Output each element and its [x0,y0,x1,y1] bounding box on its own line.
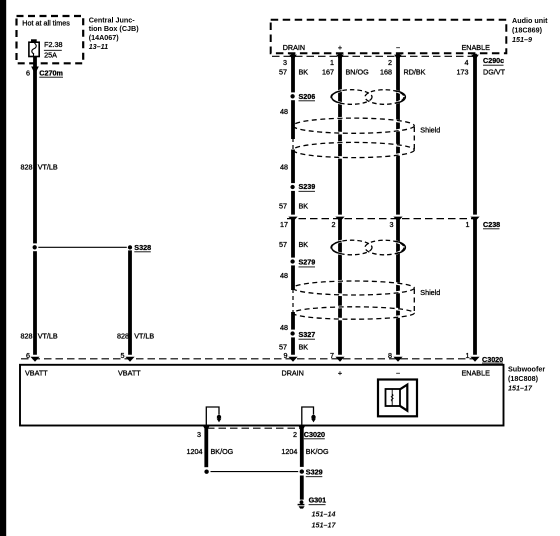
svg-text:7: 7 [330,351,334,360]
svg-text:−: − [396,368,400,377]
svg-text:5: 5 [121,351,125,360]
svg-text:151–14: 151–14 [312,509,336,518]
svg-text:4: 4 [465,58,469,67]
svg-text:Shield: Shield [420,125,440,134]
svg-text:828: 828 [21,163,33,172]
svg-text:BK/OG: BK/OG [211,447,234,456]
svg-text:(18C869): (18C869) [512,25,543,34]
svg-text:tion Box (CJB): tion Box (CJB) [89,24,140,33]
svg-text:6: 6 [26,68,30,77]
svg-text:828: 828 [21,332,33,341]
svg-text:ENABLE: ENABLE [462,368,491,377]
svg-text:VT/LB: VT/LB [134,332,154,341]
svg-text:828: 828 [117,332,129,341]
svg-text:17: 17 [280,220,288,229]
svg-text:C290c: C290c [483,56,504,65]
svg-text:9: 9 [284,351,288,360]
svg-text:F2.38: F2.38 [44,40,62,49]
svg-text:Shield: Shield [420,288,440,297]
svg-text:48: 48 [280,323,288,332]
svg-text:DG/VT: DG/VT [483,67,506,76]
svg-text:2: 2 [332,220,336,229]
svg-text:+: + [338,43,342,52]
svg-text:3: 3 [197,430,201,439]
svg-text:167: 167 [322,67,334,76]
svg-text:BK/OG: BK/OG [306,447,329,456]
svg-text:−: − [396,43,400,52]
svg-text:RD/BK: RD/BK [404,67,426,76]
svg-text:25A: 25A [44,51,57,60]
svg-text:57: 57 [279,201,287,210]
svg-text:BN/OG: BN/OG [346,67,370,76]
svg-text:1: 1 [466,351,470,360]
svg-text:1: 1 [466,220,470,229]
svg-text:151–17: 151–17 [312,521,337,530]
svg-text:151–9: 151–9 [512,35,532,44]
svg-text:VBATT: VBATT [118,368,141,377]
svg-text:(18C808): (18C808) [508,374,539,383]
svg-text:Audio unit: Audio unit [512,16,548,25]
svg-text:C238: C238 [483,220,500,229]
svg-text:BK: BK [299,343,309,352]
svg-text:G301: G301 [309,496,327,505]
svg-text:S239: S239 [299,182,316,191]
svg-text:57: 57 [279,240,287,249]
svg-text:1204: 1204 [281,447,297,456]
svg-text:6: 6 [26,351,30,360]
svg-text:2: 2 [388,58,392,67]
svg-text:C3020: C3020 [482,355,503,364]
svg-text:C270m: C270m [39,68,63,77]
svg-text:48: 48 [280,271,288,280]
svg-text:C3020: C3020 [304,430,325,439]
svg-text:+: + [338,368,342,377]
svg-text:BK: BK [299,67,309,76]
svg-text:S206: S206 [299,92,316,101]
svg-text:S327: S327 [299,330,316,339]
svg-text:48: 48 [280,107,288,116]
svg-text:13–11: 13–11 [89,42,108,51]
svg-text:VT/LB: VT/LB [38,332,58,341]
svg-text:ENABLE: ENABLE [462,43,491,52]
svg-text:DRAIN: DRAIN [283,43,305,52]
svg-text:173: 173 [457,67,469,76]
svg-text:VBATT: VBATT [25,368,48,377]
svg-text:151–17: 151–17 [508,383,533,392]
svg-text:BK: BK [299,240,309,249]
svg-text:S328: S328 [134,243,151,252]
svg-text:2: 2 [293,430,297,439]
svg-text:VT/LB: VT/LB [38,163,58,172]
svg-text:3: 3 [283,58,287,67]
svg-text:1: 1 [330,58,334,67]
svg-text:3: 3 [390,220,394,229]
svg-text:8: 8 [388,351,392,360]
svg-text:(14A067): (14A067) [89,33,120,42]
svg-text:DRAIN: DRAIN [282,368,304,377]
svg-text:Central Junc-: Central Junc- [89,15,136,24]
svg-text:Subwoofer: Subwoofer [508,365,545,374]
svg-text:Hot at all times: Hot at all times [22,18,70,27]
svg-text:1204: 1204 [187,447,203,456]
svg-text:S279: S279 [299,257,316,266]
svg-text:48: 48 [280,163,288,172]
svg-text:S329: S329 [306,468,323,477]
svg-text:57: 57 [279,67,287,76]
svg-text:BK: BK [299,201,309,210]
svg-text:168: 168 [380,67,392,76]
